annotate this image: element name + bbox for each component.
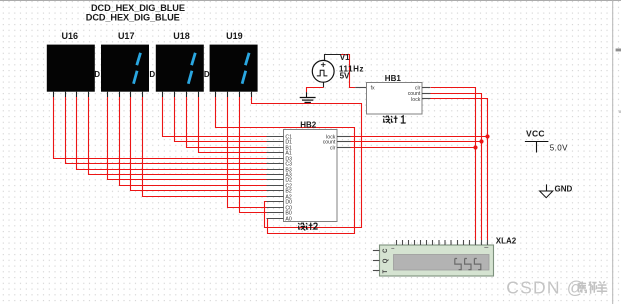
wire U18.4-HB2.A1 [199, 97, 267, 153]
HB1 pin clr [415, 86, 430, 92]
wire V1.minus to ground [307, 82, 324, 92]
svg-text:D: D [94, 70, 100, 79]
wire HB1.clr to XLA2 pin14 [431, 88, 476, 241]
wire HB2.lock to net lock [351, 136, 488, 138]
wire U19.3-HB2.B0 [240, 97, 267, 213]
wire U19.4-HB2.D0 (wraps right of HB2) [252, 97, 362, 228]
wire U17.3-HB2.B2 [131, 97, 267, 191]
svg-text:DCD_HEX_DIG_BLUE: DCD_HEX_DIG_BLUE [91, 3, 185, 13]
sheet top border [0, 0, 621, 2]
instrument XLA2 (logic analyzer) [380, 245, 494, 276]
HB2 pin A2 [267, 195, 292, 201]
wire U18.2-HB2.D1 [175, 97, 267, 142]
watermark CSDN @ (deer-lion-sheep) [506, 278, 607, 298]
hierarchical block HB2 [284, 130, 338, 222]
svg-text:U19: U19 [226, 31, 243, 41]
svg-text:V1: V1 [340, 53, 350, 62]
HB1 pin count [408, 91, 431, 97]
wire U19.1-HB2.A0 (wraps right of HB2) [216, 97, 355, 234]
svg-text:GND: GND [555, 184, 573, 193]
svg-text:clr: clr [330, 146, 336, 152]
label DCD_HEX_DIG_BLUE line 1 [91, 3, 185, 13]
wire U17.4-HB2.A2 [143, 97, 267, 197]
svg-text:Q: Q [383, 258, 389, 263]
display U18 pin stubs [163, 92, 199, 98]
HB2 pin B0 [267, 211, 292, 217]
svg-text:U16: U16 [62, 31, 79, 41]
HB2 pin count [323, 140, 351, 146]
HB2 pin C2 [267, 184, 293, 190]
HB2 pin D1 [267, 140, 293, 146]
label fragment D between U17/U18 [149, 70, 155, 79]
label sheji2 (design 2) [298, 223, 318, 231]
svg-text:A0: A0 [285, 217, 291, 223]
ground symbol (below V1) [300, 92, 316, 102]
svg-text:5.0V: 5.0V [550, 143, 568, 152]
wire U19.2-HB2.C0 [228, 97, 267, 208]
svg-text:U17: U17 [118, 31, 135, 41]
ground symbol GND [540, 184, 573, 197]
HB2 pin D2 [267, 178, 293, 184]
wire U16.1-HB2.D3 [54, 97, 267, 159]
HB2 pin A3 [267, 173, 292, 179]
HB2 pin B1 [267, 146, 292, 152]
junction clr [473, 145, 477, 149]
label 5V [340, 71, 350, 80]
wire HB1.lock to XLA2 pin16 [431, 99, 488, 241]
svg-text:HB1: HB1 [385, 74, 402, 83]
display U19 (DCD_HEX_DIG_BLUE 7-seg) [210, 31, 258, 92]
svg-text:lock: lock [411, 97, 421, 103]
power symbol VCC 5.0V [525, 129, 568, 153]
svg-text:CSDN @: CSDN @ [506, 278, 585, 298]
wire U18.3-HB2.B1 [187, 97, 267, 148]
display U17 (DCD_HEX_DIG_BLUE 7-seg) [101, 31, 149, 92]
label HB1 [385, 74, 402, 83]
junction count [479, 139, 483, 143]
display U16 (DCD_HEX_DIG_BLUE 7-seg) [47, 31, 95, 92]
wire V1.plus to HB1.fx [325, 55, 367, 88]
label HB2 [300, 120, 317, 129]
wire U16.2-HB2.C3 [66, 97, 267, 164]
wire U17.1-HB2.D2 [108, 97, 267, 180]
label fragment D between U18/U19 [204, 70, 210, 79]
svg-text:D: D [149, 70, 155, 79]
display U19 pin stubs [216, 92, 252, 98]
svg-text:5V: 5V [340, 71, 350, 80]
HB2 pin C3 [267, 162, 293, 168]
wire U18.1-HB2.C1 [163, 97, 267, 137]
HB2 pin B3 [267, 168, 292, 174]
wire HB2.count to net count [351, 141, 482, 143]
svg-text:DCD_HEX_DIG_BLUE: DCD_HEX_DIG_BLUE [86, 13, 180, 23]
HB2 pin A1 [267, 151, 292, 157]
HB2 pin lock [326, 135, 350, 141]
svg-text:HB2: HB2 [300, 120, 317, 129]
sheet right border [613, 0, 621, 304]
wire U16.3-HB2.B3 [77, 97, 267, 170]
junction lock [485, 134, 489, 138]
svg-text:U18: U18 [173, 31, 190, 41]
HB2 pin A0 [267, 217, 292, 223]
label sheji1 (design 1) [383, 116, 405, 124]
display U18 (DCD_HEX_DIG_BLUE 7-seg) [156, 31, 204, 92]
XLA2 top pin stubs [397, 240, 488, 245]
XLA2 screen waveforms [455, 259, 481, 270]
HB2 pin C1 [267, 135, 293, 141]
XLA2 left pins C Q T [373, 248, 389, 274]
svg-text:fx: fx [371, 86, 375, 92]
label 111Hz [339, 64, 364, 73]
label DCD_HEX_DIG_BLUE line 2 [86, 13, 180, 23]
display U17 pin stubs [108, 92, 143, 98]
svg-text:C: C [383, 248, 389, 253]
wire U17.2-HB2.C2 [120, 97, 267, 186]
label V1 [340, 53, 350, 62]
HB2 pin D0 [267, 200, 293, 206]
wire HB2.clr to net clr [351, 147, 476, 149]
svg-text:VCC: VCC [526, 129, 545, 139]
label XLA2 [496, 237, 517, 246]
svg-text:XLA2: XLA2 [496, 237, 517, 246]
wire U16.4-HB2.A3 [89, 97, 267, 175]
display U16 pin stubs [54, 92, 89, 98]
HB1 pin fx [371, 86, 375, 92]
HB2 pin B2 [267, 189, 292, 195]
voltage source V1 (clock, 111Hz 5V) [312, 60, 334, 82]
svg-text:T: T [383, 270, 389, 274]
wire HB1.count to XLA2 pin15 [431, 94, 482, 241]
HB2 pin clr [330, 146, 351, 152]
label fragment D between U16/U17 [94, 70, 100, 79]
HB1 pin lock [411, 97, 430, 103]
HB2 pin D3 [267, 157, 293, 163]
svg-text:D: D [204, 70, 210, 79]
HB2 pin C0 [267, 206, 293, 212]
hierarchical block HB1 [367, 83, 423, 115]
